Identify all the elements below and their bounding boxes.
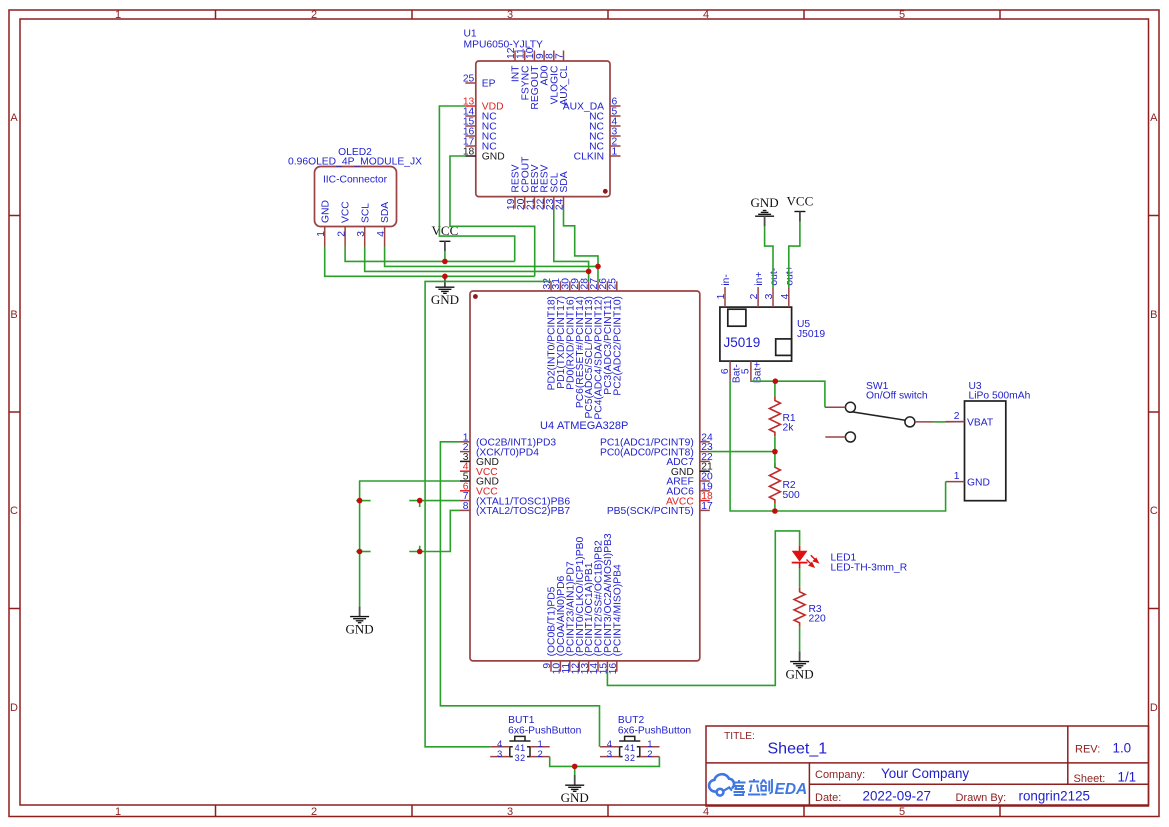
U4 pin 16 (PCINT4/MISO)PB4 xyxy=(608,564,623,674)
IC U4 ATMEGA328P xyxy=(470,291,700,661)
U4 pin 31 PD1(TXD/PCINT17) xyxy=(551,278,567,389)
U1 pin 11 FSYNC xyxy=(516,48,532,100)
U1 pin 5 NC xyxy=(589,107,620,123)
svg-text:500: 500 xyxy=(783,490,800,501)
U4 pin 7 (XTAL1/TOSC1)PB6 xyxy=(460,491,570,507)
svg-text:(XTAL2/TOSC2)PB7: (XTAL2/TOSC2)PB7 xyxy=(476,506,570,517)
U4 pin 14 (PCINT2/SS#/OC1B)PB2 xyxy=(589,540,604,674)
LED LED1 LED-TH-3mm_R xyxy=(792,546,907,574)
svg-text:2: 2 xyxy=(630,753,635,763)
svg-text:2: 2 xyxy=(538,749,543,760)
U3 pin 2 VBAT xyxy=(946,411,994,428)
U1 pin 8 VLOGIC xyxy=(545,51,561,105)
svg-text:6: 6 xyxy=(720,368,731,374)
wire U1 GND pin18 xyxy=(450,156,535,276)
svg-text:2k: 2k xyxy=(783,423,795,434)
svg-text:IIC-Connector: IIC-Connector xyxy=(323,174,388,185)
U1 pin 17 NC xyxy=(463,137,497,153)
title block TITLE label xyxy=(724,731,755,742)
U4 pin 6 VCC xyxy=(460,481,498,497)
U1 pin 9 AD0 xyxy=(535,51,551,86)
U4 pin 25 PC2(ADC2/PCINT10) xyxy=(608,278,624,396)
svg-text:VBAT: VBAT xyxy=(967,417,994,428)
svg-text:5: 5 xyxy=(741,368,752,374)
svg-text:Sheet:: Sheet: xyxy=(1074,773,1106,785)
junction XTAL1 net junction B xyxy=(417,498,423,504)
junction SDA net junction xyxy=(595,264,601,270)
wire R3 to ground xyxy=(799,627,801,645)
U5 pin 2 in+ xyxy=(749,272,765,308)
svg-text:5: 5 xyxy=(899,806,905,818)
OLED2 pin 4 SDA xyxy=(376,202,391,247)
BUT2 pin 4 xyxy=(600,739,629,753)
svg-text:0.96OLED_4P_MODULE_JX: 0.96OLED_4P_MODULE_JX xyxy=(288,157,422,168)
junction Bat+ junction xyxy=(773,378,779,384)
U1 pin 15 NC xyxy=(463,117,497,133)
BUT1 pin 4 xyxy=(490,739,519,753)
svg-text:16: 16 xyxy=(608,663,619,675)
svg-text:2: 2 xyxy=(520,753,525,763)
U4 pin 13 (PCINT1/OC1A)PB1 xyxy=(580,562,595,674)
resistor R3 xyxy=(794,588,826,627)
U1 pin 19 RESV xyxy=(506,164,521,210)
border column labels top xyxy=(115,9,905,21)
wire U4 pin8 net xyxy=(409,510,460,551)
svg-text:Your Company: Your Company xyxy=(881,766,969,781)
BUT1 pin 1 xyxy=(520,739,550,753)
U1 pin 4 NC xyxy=(589,117,620,133)
wire U5 Bat- to GND bus xyxy=(730,381,946,511)
svg-text:CLKIN: CLKIN xyxy=(574,152,604,163)
svg-text:BUT1: BUT1 xyxy=(508,715,535,726)
wire SCL bus xyxy=(365,247,589,272)
wire U4 pin23 to R1 R2 xyxy=(710,451,775,453)
svg-text:220: 220 xyxy=(809,614,826,625)
U4 pin 2 (XCK/T0)PD4 xyxy=(460,442,539,458)
svg-text:8: 8 xyxy=(463,501,469,512)
BUT1 pin 2 xyxy=(520,749,550,763)
junction R1 R2 ADC junction xyxy=(772,449,778,455)
U4 pin 11 (PCINT23/AIN1)PD7 xyxy=(561,561,576,673)
U5 pin 4 out+ xyxy=(780,265,796,307)
wire stub v2 xyxy=(419,546,421,552)
EDA logo xyxy=(709,774,807,798)
svg-text:1/1: 1/1 xyxy=(1118,769,1137,784)
U5 pin 6 Bat- xyxy=(720,361,743,383)
wire VCC bus xyxy=(345,247,515,262)
svg-text:1: 1 xyxy=(115,9,121,21)
U4 pin 26 PC3(ADC3/PCINT11) xyxy=(598,278,614,395)
power flag VCC near OLED xyxy=(432,223,459,261)
svg-text:rongrin2125: rongrin2125 xyxy=(1019,788,1090,803)
border row labels right xyxy=(1150,112,1158,714)
wire stub v1 xyxy=(419,501,421,507)
junction SCL net junction xyxy=(586,269,592,275)
U1 pin 12 INT xyxy=(506,47,522,82)
wire U5 out+ to VCC xyxy=(789,222,800,288)
wire GND bus xyxy=(325,247,535,277)
U3 pin 1 GND xyxy=(946,471,990,488)
U1 pin 13 VDD xyxy=(463,97,504,113)
svg-text:2: 2 xyxy=(647,749,652,760)
U4 pin 15 (PCINT3/OC2A/MOSI)PB3 xyxy=(599,533,614,674)
svg-text:On/Off switch: On/Off switch xyxy=(866,391,928,402)
junction button GND junction xyxy=(572,764,578,770)
svg-text:GND: GND xyxy=(561,790,589,805)
svg-text:3: 3 xyxy=(607,749,612,760)
svg-text:J5019: J5019 xyxy=(797,329,825,340)
title block Sheet number xyxy=(1074,769,1137,784)
wire U1 SDA to U4 pin27 xyxy=(564,209,599,282)
U1 pin 14 NC xyxy=(463,107,497,123)
BUT2 pin 2 xyxy=(630,749,660,763)
svg-text:25: 25 xyxy=(463,74,475,85)
svg-text:25: 25 xyxy=(608,278,619,290)
svg-text:GND: GND xyxy=(346,621,374,636)
battery connector U3 LiPo 500mAh xyxy=(965,381,1031,501)
border row labels left xyxy=(10,112,18,714)
svg-text:2022-09-27: 2022-09-27 xyxy=(863,788,932,803)
wire U4 pin15 to LED xyxy=(607,531,799,686)
wire R1 top xyxy=(774,381,776,396)
switch SW1 On/Off switch xyxy=(845,381,927,442)
svg-text:24: 24 xyxy=(555,198,566,210)
module U5 J5019 xyxy=(720,307,825,361)
OLED2 pin 2 VCC xyxy=(336,201,351,247)
border column labels bottom xyxy=(115,806,905,818)
svg-text:(PCINT4/MISO)PB4: (PCINT4/MISO)PB4 xyxy=(612,564,623,656)
svg-text:3: 3 xyxy=(515,753,520,763)
U1 pin 16 NC xyxy=(463,127,497,143)
U5 pin 3 out- xyxy=(764,268,780,307)
BUT1 pin 3 xyxy=(490,749,519,763)
wire U4 pin1 to BUT2 xyxy=(440,442,599,747)
U4 pin 17 PB5(SCK/PCINT5) xyxy=(607,501,713,517)
U4 pin 29 PC6(RESET#/PCINT14) xyxy=(570,278,586,408)
power flag VCC above U5 xyxy=(787,194,814,222)
U4 pin 32 PD2(INT0/PCINT18) xyxy=(542,278,558,391)
U1 pin 25 EP xyxy=(463,74,496,90)
svg-text:1: 1 xyxy=(716,293,727,299)
wire left seg2 xyxy=(356,551,370,553)
svg-text:PB5(SCK/PCINT5): PB5(SCK/PCINT5) xyxy=(607,506,694,517)
svg-text:1: 1 xyxy=(954,471,960,482)
ground button net xyxy=(561,766,589,805)
svg-text:Date:: Date: xyxy=(815,792,841,804)
resistor R1 xyxy=(769,397,796,437)
U1 pin 10 REGOUT xyxy=(525,47,541,109)
title block Drawn By xyxy=(956,788,1090,803)
svg-text:U4: U4 xyxy=(540,420,554,432)
BUT2 pin 3 xyxy=(600,749,629,763)
U4 pin 12 (PCINT0/CLKO/ICP1)PB0 xyxy=(570,537,585,675)
wire BUT1 pin2 to ground bus xyxy=(550,757,660,767)
U1 pin 22 RESV xyxy=(535,164,550,210)
U4 pin 24 PC1(ADC1/PCINT9) xyxy=(600,432,713,448)
wire left seg1 xyxy=(356,500,370,502)
wire U4 pin5 to ground xyxy=(360,481,460,606)
BUT2 pin 1 xyxy=(630,739,660,753)
svg-text:SDA: SDA xyxy=(380,202,391,223)
svg-text:U1: U1 xyxy=(464,29,477,40)
junction VCC bus junction xyxy=(442,259,448,265)
svg-text:1.0: 1.0 xyxy=(1113,741,1132,756)
U4 pin 1 (OC2B/INT1)PD3 xyxy=(460,432,556,448)
svg-text:Bat+: Bat+ xyxy=(752,362,763,383)
svg-text:VCC: VCC xyxy=(341,201,352,223)
svg-text:1: 1 xyxy=(115,806,121,818)
svg-text:GND: GND xyxy=(786,666,814,681)
U4 pin 28 PC5(ADC5/SCL/PCINT13) xyxy=(579,278,595,419)
svg-text:7: 7 xyxy=(554,53,565,59)
wire U1 SCL to U4 pin28 xyxy=(554,209,589,282)
wire SW to VBAT green xyxy=(934,421,946,423)
U4 pin 4 VCC xyxy=(460,462,498,478)
U4 pin 27 PC4(ADC4/SDA/PCINT12) xyxy=(589,278,605,420)
svg-text:5: 5 xyxy=(899,9,905,21)
svg-text:GND: GND xyxy=(482,152,505,163)
U4 pin 30 PD0(RXD/PCINT16) xyxy=(561,278,577,390)
U4 pin 22 ADC7 xyxy=(666,452,713,468)
U5 pin 5 Bat+ xyxy=(741,361,764,383)
U4 pin 8 (XTAL2/TOSC2)PB7 xyxy=(460,501,570,517)
junction XTAL2 net junction A xyxy=(357,549,363,555)
title block REV xyxy=(1075,741,1131,756)
wire U4 pin7 stub net xyxy=(409,500,460,502)
wire SDA bus xyxy=(385,247,598,267)
junction GND bus junction xyxy=(442,274,448,280)
junction R2 bottom junction xyxy=(772,508,778,514)
svg-text:GND: GND xyxy=(967,477,990,488)
svg-text:2: 2 xyxy=(336,231,347,237)
svg-text:D: D xyxy=(1150,702,1158,714)
svg-text:B: B xyxy=(10,309,17,321)
svg-text:in-: in- xyxy=(721,274,732,285)
ground main bus xyxy=(431,277,459,307)
svg-text:3: 3 xyxy=(497,749,502,760)
U1 pin 20 CPOUT xyxy=(516,156,531,210)
title block Company xyxy=(815,766,969,781)
title block xyxy=(706,726,1149,806)
U1 pin 3 NC xyxy=(589,127,620,143)
svg-text:Sheet_1: Sheet_1 xyxy=(768,741,828,758)
svg-text:1: 1 xyxy=(630,743,635,753)
svg-text:4: 4 xyxy=(703,9,709,21)
svg-text:B: B xyxy=(1150,309,1157,321)
svg-text:2: 2 xyxy=(311,806,317,818)
svg-text:6x6-PushButton: 6x6-PushButton xyxy=(508,726,582,737)
svg-text:BUT2: BUT2 xyxy=(618,715,645,726)
svg-text:4: 4 xyxy=(624,743,629,753)
U1 pin 1 CLKIN xyxy=(574,147,621,163)
svg-text:1: 1 xyxy=(520,743,525,753)
connector OLED2 0.96OLED_4P_MODULE_JX xyxy=(288,147,422,227)
svg-text:LiPo 500mAh: LiPo 500mAh xyxy=(969,391,1031,402)
U1 pin 6 AUX_DA xyxy=(563,97,621,113)
svg-text:4: 4 xyxy=(703,806,709,818)
svg-text:C: C xyxy=(10,505,18,517)
pushbutton BUT1 6x6-PushButton xyxy=(508,715,582,757)
resistor R2 xyxy=(769,463,800,504)
svg-text:2: 2 xyxy=(954,411,960,422)
svg-text:2: 2 xyxy=(311,9,317,21)
svg-text:SDA: SDA xyxy=(559,171,570,192)
junction XTAL1 net junction A xyxy=(357,498,363,504)
svg-text:EP: EP xyxy=(482,79,496,90)
ground LED net xyxy=(786,645,814,681)
pushbutton BUT2 6x6-PushButton xyxy=(618,715,692,757)
wire U5 out- to ground xyxy=(765,226,773,287)
svg-text:J5019: J5019 xyxy=(724,335,761,350)
U4 pin 21 GND xyxy=(671,462,713,478)
svg-text:3: 3 xyxy=(624,753,629,763)
svg-text:3: 3 xyxy=(356,231,367,237)
U1 pin 24 SDA xyxy=(555,171,570,210)
svg-text:AUX_CL: AUX_CL xyxy=(559,65,570,105)
svg-text:SCL: SCL xyxy=(360,203,371,223)
wire R2 bottom xyxy=(774,504,776,511)
wire U4 pin32 to BUT1 xyxy=(425,281,551,746)
svg-text:1: 1 xyxy=(316,231,327,237)
svg-text:out-: out- xyxy=(769,268,780,286)
U4 pin 20 AREF xyxy=(666,472,713,488)
U4 pin 3 GND xyxy=(460,452,499,468)
svg-text:2: 2 xyxy=(749,293,760,299)
U4 pin 18 AVCC xyxy=(666,491,713,507)
U1 pin 7 AUX_CL xyxy=(554,51,570,106)
U1 pin 18 GND xyxy=(463,147,505,163)
svg-text:out+: out+ xyxy=(785,265,796,285)
title block sheet name Sheet_1 xyxy=(768,741,828,758)
svg-text:4: 4 xyxy=(515,743,520,753)
svg-text:6x6-PushButton: 6x6-PushButton xyxy=(618,726,692,737)
svg-text:PC2(ADC2/PCINT10): PC2(ADC2/PCINT10) xyxy=(612,296,623,396)
svg-text:ATMEGA328P: ATMEGA328P xyxy=(557,420,628,432)
svg-text:D: D xyxy=(10,702,18,714)
wire U5 Bat+ to switch xyxy=(751,381,825,408)
svg-text:3: 3 xyxy=(507,806,513,818)
svg-text:4: 4 xyxy=(780,293,791,299)
svg-text:C: C xyxy=(1150,505,1158,517)
svg-text:in+: in+ xyxy=(754,272,765,286)
svg-text:3: 3 xyxy=(764,293,775,299)
ground above U5 (inverted) xyxy=(751,195,779,226)
U4 pin 9 (OC0B/T1)PD5 xyxy=(542,586,557,671)
IC U1 MPU6050-YJLTY xyxy=(464,29,611,197)
svg-text:LED-TH-3mm_R: LED-TH-3mm_R xyxy=(831,563,908,574)
svg-text:3: 3 xyxy=(507,9,513,21)
svg-text:EDA: EDA xyxy=(775,781,808,798)
svg-text:GND: GND xyxy=(431,292,459,307)
svg-text:VCC: VCC xyxy=(787,194,814,209)
svg-text:Company:: Company: xyxy=(815,769,865,781)
SW1 pin stubs xyxy=(825,407,965,437)
svg-text:4: 4 xyxy=(376,231,387,237)
U4 pin 23 PC0(ADC0/PCINT8) xyxy=(600,442,713,458)
U1 pin 23 SCL xyxy=(545,172,560,210)
U1 pin 2 NC xyxy=(589,137,620,153)
junction XTAL2 net junction B xyxy=(417,549,423,555)
svg-text:GND: GND xyxy=(320,200,331,223)
svg-text:GND: GND xyxy=(751,195,779,210)
wire R1 bottom to R2 top xyxy=(774,436,776,467)
OLED2 pin 1 GND xyxy=(316,200,331,246)
svg-text:Drawn By:: Drawn By: xyxy=(956,792,1007,804)
U1 pin 21 RESV xyxy=(526,164,541,210)
svg-text:TITLE:: TITLE: xyxy=(724,731,755,742)
U5 pin 1 in- xyxy=(716,274,732,307)
wire LED to R3 xyxy=(799,568,801,588)
title block Date xyxy=(815,788,931,803)
OLED2 pin 3 SCL xyxy=(356,203,371,247)
U4 pin 5 GND xyxy=(460,472,499,488)
svg-text:1: 1 xyxy=(612,147,618,158)
U4 pin 19 ADC6 xyxy=(666,481,713,497)
svg-text:17: 17 xyxy=(701,501,713,512)
svg-text:A: A xyxy=(1150,112,1158,124)
svg-text:A: A xyxy=(10,112,18,124)
U4 pin 10 (OC0A/AIN0)PD6 xyxy=(552,575,567,674)
ground U4 pin5 net xyxy=(346,606,374,636)
wire U1 VDD to VCC bus xyxy=(439,106,514,261)
svg-text:REV:: REV: xyxy=(1075,744,1100,756)
